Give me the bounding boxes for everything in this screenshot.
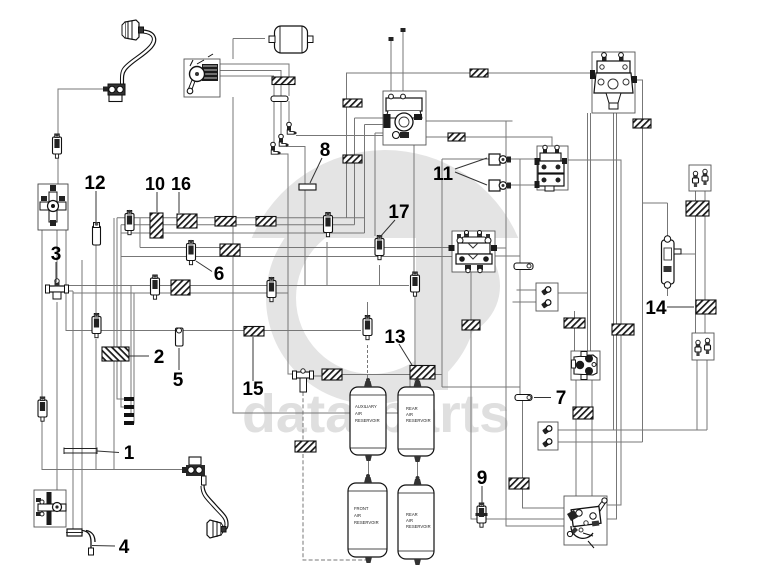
wire B6 right ports to x512 x516 columns (495, 248, 520, 256)
emergency relay fitting G1f (103, 84, 125, 102)
wire governor right to trailer valve B5 (426, 121, 552, 146)
inline valve part6 (187, 240, 196, 265)
trailer valve G2 (182, 457, 206, 485)
svg-text:RESERVOIR: RESERVOIR (406, 524, 431, 529)
wire row B lower y256 to protection valve B6 (121, 256, 452, 258)
inline valve V322 (324, 212, 333, 237)
pointer lines (56, 158, 694, 546)
svg-text:4: 4 (119, 537, 130, 558)
gladhand coupling G2h (207, 520, 226, 538)
pointer 1 (97, 451, 119, 453)
wire verticals x346 x357 up to governor B2 (347, 73, 384, 236)
fitting box B8 (536, 283, 558, 311)
pointer 17 (380, 220, 395, 237)
hatched hose H20 (573, 407, 593, 419)
wire tee stem drop x303 dashed to tank T3 bottom (303, 392, 366, 560)
wire B10 columns to hatched23 hatched24 B11 (696, 190, 706, 333)
pointer 13 (399, 344, 412, 365)
inline valve tee300 (293, 369, 314, 392)
hatched hose H10 (256, 217, 276, 227)
part 7b pipe (514, 263, 533, 270)
wire relay valve 14 riser (643, 203, 696, 296)
wire B4 right port x642 column (635, 80, 643, 442)
wire row E tee to hatched15b to x442 column (311, 375, 520, 388)
part 4 bracket (66, 529, 83, 536)
compressor B1 (184, 54, 220, 97)
inline valve V42 (38, 396, 47, 421)
pointer 8 (310, 158, 322, 183)
four circuit valve box B7 (571, 351, 600, 380)
svg-text:9: 9 (477, 468, 488, 489)
elbow E3 (271, 142, 281, 154)
air tank T1 auxiliary (350, 378, 386, 461)
hatched hose H25 (295, 441, 316, 452)
svg-text:7: 7 (556, 388, 567, 409)
hatched hose H11 (220, 244, 240, 256)
wire bundle vertical x114 (113, 218, 115, 470)
svg-text:AIR: AIR (354, 513, 361, 518)
pointer 4 (92, 545, 115, 548)
part 3 tee fitting (46, 279, 69, 299)
wire B5 right port x621 column (568, 160, 621, 505)
hatched hose 16 (177, 214, 197, 228)
wire tank link T1-T3 (368, 461, 370, 479)
svg-text:RESERVOIR: RESERVOIR (406, 418, 431, 423)
pointer 6 (196, 261, 212, 272)
wire row C upper y286 long to x415 column (66, 285, 409, 287)
wire B7 bottom pair to hatched20 to B12 top (576, 380, 592, 496)
wire row D y330.5 from B3 (66, 230, 361, 331)
svg-text:1: 1 (124, 443, 135, 464)
svg-text:14: 14 (645, 298, 667, 319)
wire row B upper y247.5 to protection valve B6 (140, 247, 452, 249)
hatched hose H23 (686, 201, 709, 216)
svg-text:17: 17 (388, 202, 409, 223)
hatched hose 13 (410, 366, 435, 380)
part 12 cylinder (93, 222, 101, 245)
inline valve V96 (92, 313, 101, 338)
protection valve box B6 (449, 231, 498, 273)
valve box B3 (38, 184, 68, 230)
svg-text:AIR: AIR (406, 412, 413, 417)
wire valve363 riser (367, 302, 369, 316)
elbow E2 (279, 134, 289, 146)
svg-text:REAR: REAR (406, 512, 418, 517)
svg-text:RESERVOIR: RESERVOIR (354, 520, 379, 525)
fitting box B11 (692, 333, 714, 360)
wire B11 bottom drops (697, 360, 707, 430)
wire tank link T2-T4 (417, 462, 419, 481)
wire elbow E3 outlet to x288 riser down to tee (278, 154, 295, 374)
pointer 12 (95, 191, 97, 222)
hatched hose H5 (343, 155, 362, 163)
hatched hose H18 (564, 318, 585, 328)
svg-text:6: 6 (214, 264, 225, 285)
svg-text:2: 2 (154, 347, 165, 368)
governor box B2 (383, 28, 426, 145)
svg-text:13: 13 (384, 327, 405, 348)
wire elbow column drops (274, 84, 289, 143)
wire row A upper y218 (117, 217, 365, 219)
wire brake valve B4 bottom columns (588, 113, 617, 519)
hose coil G2 (204, 485, 228, 530)
wire x506 column (506, 121, 564, 526)
part 4 drain hose (82, 531, 95, 549)
wire 11 fittings to trailer valve B5 (508, 159, 537, 185)
air tank T5 (269, 26, 313, 53)
valve box B13 part4 (34, 490, 66, 527)
wire x520 column (520, 159, 564, 508)
ring fitting RF (271, 96, 288, 102)
wire gladhand G1 to left column (57, 89, 108, 490)
wire B8 east link (558, 292, 588, 294)
pointer 2 (129, 355, 149, 357)
wire tank T5 feed x233 (233, 39, 410, 414)
wire bundle vertical x117 to dash1 (117, 218, 124, 399)
wire elbow E2 outlet to x305 and part8 (286, 147, 305, 286)
svg-text:16: 16 (171, 174, 191, 194)
inline valve V10L (125, 210, 134, 235)
part 7 pipe (515, 395, 532, 401)
fitting 11b (489, 180, 511, 191)
wire x82 drop to part4 bracket (81, 260, 83, 531)
hatched hose H15 (322, 369, 342, 380)
pointer 15 (252, 337, 254, 381)
inline valve VC (151, 274, 160, 299)
wire compressor outputs to elbow column (220, 64, 289, 77)
hatched hose 10 (150, 213, 163, 238)
wire elbow E1 outlet to x414 column down to valve 13 (296, 136, 414, 277)
relay valve RV14 (662, 236, 682, 288)
wire tee right port down x73 to part4 bracket (66, 291, 82, 530)
pointer 10 (156, 192, 158, 212)
hose coil G1 (123, 30, 155, 84)
wire governor B2 studs (391, 31, 403, 91)
pointer 14 (667, 306, 694, 308)
elbow E1 (287, 122, 297, 134)
wire B8 west links (513, 290, 537, 302)
wire valve above tank T1 drop (367, 345, 369, 381)
svg-text:15: 15 (242, 379, 264, 400)
part 1 pipe (64, 448, 97, 455)
svg-text:AIR: AIR (406, 518, 413, 523)
svg-text:REAR: REAR (406, 406, 418, 411)
wire row A lower y225 (121, 224, 355, 226)
inline valve V363 (363, 315, 372, 340)
wire bundle vertical x121 to dash2 (121, 225, 124, 407)
part 9 drain valve (476, 502, 488, 527)
hand brake valve box B12 (564, 496, 607, 548)
wire left column x42 to trailer valve G2 (42, 230, 186, 470)
fitting 11a (489, 154, 511, 165)
wire part9 east to hand valve B12 (486, 518, 564, 520)
wire bundle vertical x134 to dash4 (124, 293, 134, 423)
svg-text:5: 5 (173, 370, 184, 391)
gladhand coupling G1 (122, 20, 144, 40)
svg-text:3: 3 (51, 244, 62, 265)
pointer 11 (455, 158, 487, 185)
pointer 16 (178, 192, 180, 213)
air tank T3 front (348, 474, 387, 563)
svg-text:AIR: AIR (355, 411, 362, 416)
air tank T2 rear (398, 378, 434, 462)
hatched hose H3 (343, 99, 362, 107)
wire valve x327 riser (326, 242, 328, 286)
wire row C lower y293 to tee riser (73, 292, 288, 294)
hatched hose H22 (633, 119, 651, 128)
inline valve part17 (375, 235, 384, 260)
hatched hose H19 (612, 324, 634, 335)
svg-text:AUXILIARY: AUXILIARY (355, 404, 377, 409)
svg-text:FRONT: FRONT (354, 506, 369, 511)
hatched hose 15 (244, 327, 264, 337)
svg-text:10: 10 (145, 174, 165, 194)
hatched hose H21 (509, 478, 529, 489)
WATERMARK (242, 150, 518, 444)
fitting box B10 (689, 165, 711, 191)
hatched hose H9 (215, 217, 236, 227)
fitting box B9 (538, 422, 558, 450)
hatched hose 14 (696, 300, 716, 314)
hatched hose H4 (448, 133, 465, 141)
wire B9 east links (558, 430, 707, 442)
hatched hose H2 (470, 69, 488, 77)
hatched hose H17 (462, 320, 480, 330)
wire x415 column valve13 to hatched 13 to tank T2 (414, 293, 416, 381)
wire top line y74.5 to brake valve B4 (346, 72, 592, 74)
brake valve box B4 (590, 52, 637, 113)
wire valve17 drop (379, 265, 381, 286)
wire bundle vertical x131 to dash3 (124, 286, 131, 416)
part 8 hose stub (299, 184, 316, 190)
svg-text:11: 11 (433, 164, 454, 185)
wire B6 bottom to hatched17 down to part9 (471, 272, 477, 519)
pointer 3 (55, 262, 57, 282)
wire part12 column x96 (95, 192, 97, 470)
pointer 5 (178, 348, 180, 370)
hatched hose H12 (171, 280, 190, 295)
inline filter IF1 (53, 133, 62, 158)
svg-text:RESERVOIR: RESERVOIR (355, 418, 380, 423)
hatched hose H1 (272, 77, 295, 85)
inline valve V13 (411, 271, 420, 296)
wire B8 bottom to hatched18 to B7 (574, 311, 576, 351)
wire x442 column (442, 159, 489, 387)
part 5 cylinder (176, 328, 184, 346)
svg-text:12: 12 (84, 173, 105, 194)
inline valve VC2 (267, 277, 276, 302)
wire row A3 y233 (121, 218, 365, 248)
svg-text:8: 8 (320, 140, 331, 161)
trailer control valve box B5 (535, 145, 569, 191)
hatched hose 2 (102, 347, 129, 361)
dash connectors (124, 397, 134, 425)
air tank T4 rear (398, 476, 434, 565)
pointer 7 (534, 397, 551, 399)
pointer 9 (481, 486, 483, 504)
